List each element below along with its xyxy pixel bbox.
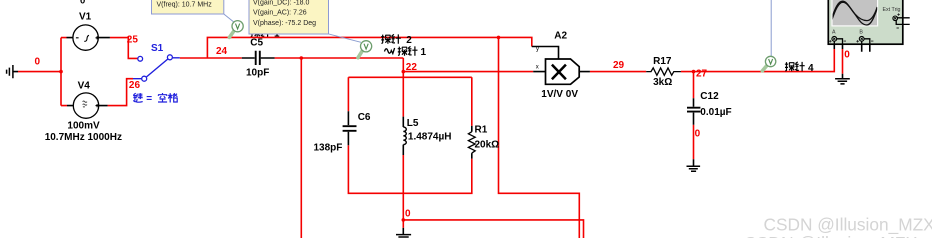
svg-text:20kΩ: 20kΩ xyxy=(475,139,500,150)
svg-text:=: = xyxy=(146,93,152,104)
svg-text:1V/V 0V: 1V/V 0V xyxy=(541,89,578,100)
svg-text:CSDN @Illusion_MZX: CSDN @Illusion_MZX xyxy=(764,215,932,235)
svg-text:3kΩ: 3kΩ xyxy=(653,77,672,88)
svg-text:25: 25 xyxy=(127,34,139,45)
svg-text:C6: C6 xyxy=(358,112,371,123)
svg-text:V4: V4 xyxy=(78,81,91,92)
svg-text:V(freq): 10.7 MHz: V(freq): 10.7 MHz xyxy=(157,1,213,8)
svg-text:R1: R1 xyxy=(475,125,488,136)
svg-text:A: A xyxy=(832,30,836,36)
svg-text:V(phase): -75.2 Deg: V(phase): -75.2 Deg xyxy=(253,20,316,27)
svg-text:B: B xyxy=(859,30,863,36)
svg-text:A2: A2 xyxy=(554,30,567,41)
svg-text:x: x xyxy=(536,65,539,71)
svg-text:S1: S1 xyxy=(151,43,164,54)
svg-text:0: 0 xyxy=(80,0,85,6)
svg-text:V(gain_DC): -18.0: V(gain_DC): -18.0 xyxy=(253,0,310,6)
svg-text:0: 0 xyxy=(35,56,41,67)
svg-text:1: 1 xyxy=(421,47,427,58)
svg-text:27: 27 xyxy=(696,69,708,80)
svg-text:V1: V1 xyxy=(79,11,92,22)
svg-text:C12: C12 xyxy=(700,91,719,102)
svg-text:22: 22 xyxy=(406,62,418,73)
svg-text:138pF: 138pF xyxy=(314,142,343,153)
svg-text:V(gain_AC): 7.26: V(gain_AC): 7.26 xyxy=(253,10,307,17)
svg-text:R17: R17 xyxy=(653,56,672,67)
svg-text:100mV: 100mV xyxy=(67,121,100,132)
svg-text:0.01µF: 0.01µF xyxy=(700,107,731,118)
svg-text:26: 26 xyxy=(129,80,141,91)
svg-text:Ext Trig: Ext Trig xyxy=(883,7,901,13)
svg-text:C5: C5 xyxy=(250,38,263,49)
svg-text:1.4874µH: 1.4874µH xyxy=(408,132,452,143)
svg-text:10pF: 10pF xyxy=(246,68,269,79)
svg-text:29: 29 xyxy=(613,60,625,71)
svg-text:10.7MHz 1000Hz: 10.7MHz 1000Hz xyxy=(45,132,122,143)
svg-text:0: 0 xyxy=(844,49,850,60)
svg-text:L5: L5 xyxy=(407,118,419,129)
svg-text:4: 4 xyxy=(808,63,814,74)
svg-text:CSDN @Illusion_MZX: CSDN @Illusion_MZX xyxy=(744,233,918,238)
svg-text:2: 2 xyxy=(406,35,412,46)
svg-text:24: 24 xyxy=(216,46,228,57)
svg-text:y: y xyxy=(536,47,539,53)
svg-text:0: 0 xyxy=(405,209,411,220)
svg-text:0: 0 xyxy=(695,129,701,140)
